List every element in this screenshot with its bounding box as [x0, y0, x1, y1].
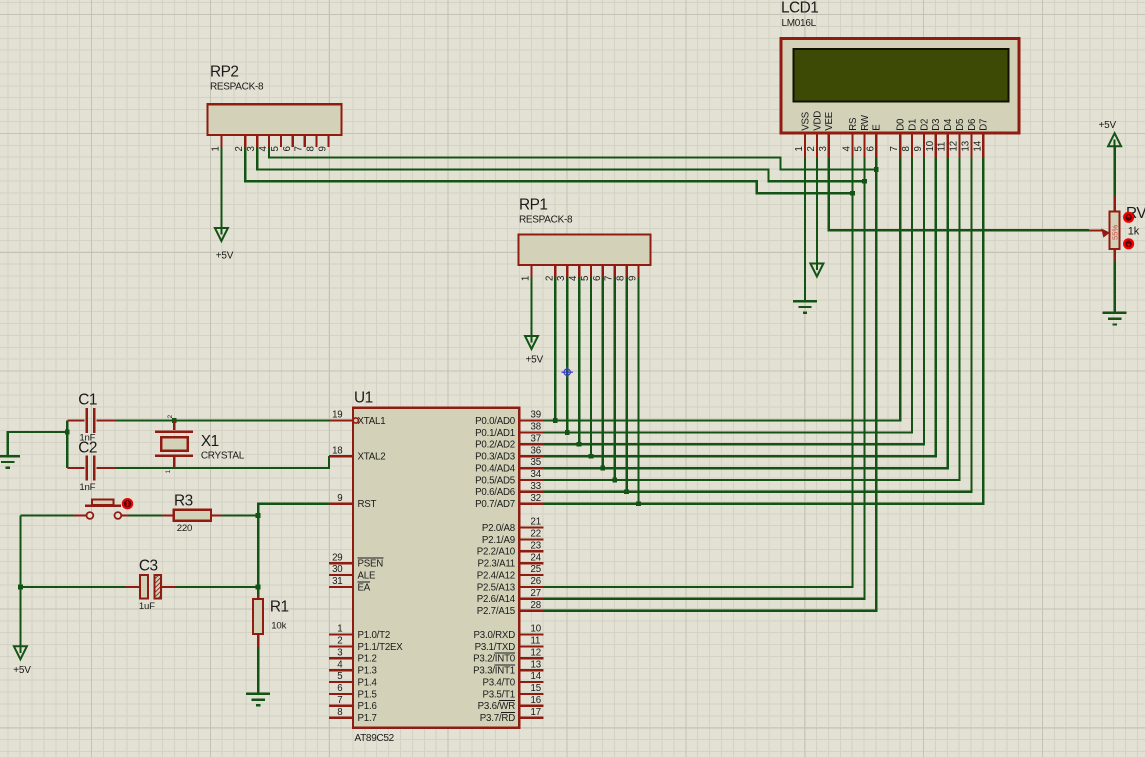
overline for PSEN [358, 557, 384, 559]
RP2 pin 1 stub [220, 135, 222, 147]
svg-text:32: 32 [531, 493, 541, 504]
svg-text:P3.0/RXD: P3.0/RXD [474, 630, 516, 641]
svg-text:6: 6 [865, 146, 876, 151]
svg-text:35: 35 [531, 457, 541, 468]
U1 pin 8 (P1.7) stub [329, 717, 353, 719]
RP1 pin 3 stub [566, 265, 568, 277]
svg-text:P1.0/T2: P1.0/T2 [358, 630, 391, 641]
LCD1 pin 3 (VEE) stub [828, 133, 830, 158]
wire RP2 pin2 to LCD RS [245, 147, 852, 193]
U1 pin 6 (P1.5) stub [329, 693, 353, 695]
svg-text:1nF: 1nF [79, 482, 95, 493]
svg-text:LCD1: LCD1 [781, 0, 818, 17]
svg-text:RESPACK-8: RESPACK-8 [210, 82, 264, 93]
svg-text:19: 19 [332, 410, 342, 421]
RP2 pin 3 stub [256, 135, 258, 147]
svg-text:RESPACK-8: RESPACK-8 [519, 215, 573, 226]
U1 pin 5 (P1.4) stub [329, 681, 353, 683]
svg-text:P3.2/INT0: P3.2/INT0 [473, 654, 516, 665]
push button [73, 514, 87, 516]
svg-text:2: 2 [806, 146, 817, 151]
U1 XTAL1 clock pin circle [353, 418, 358, 423]
node junction RP1 pin8 on P0.6 [624, 489, 629, 494]
overline for P3.6/WR [499, 700, 515, 702]
wire U1 P0.0 to LCD D0 [543, 158, 900, 421]
wire R1 to ground [257, 647, 259, 694]
svg-text:5: 5 [853, 146, 864, 151]
push button actuator red dot [122, 498, 133, 509]
LCD1 pin 6 (E) stub [875, 133, 877, 158]
svg-text:7: 7 [889, 146, 900, 151]
svg-text:1uF: 1uF [139, 601, 155, 612]
svg-text:P1.6: P1.6 [358, 701, 377, 712]
svg-text:X1: X1 [201, 433, 219, 450]
U1 pin 13 (P3.3/INT1) stub [519, 669, 543, 671]
svg-text:38: 38 [531, 422, 541, 433]
RP2 pin 9 stub [327, 135, 329, 147]
svg-text:28: 28 [531, 600, 541, 611]
RP1 pin 5 stub [590, 265, 592, 277]
LCD1 pin 8 (D1) stub [911, 133, 913, 158]
RP1 pin 2 stub [554, 265, 556, 277]
wire C1 to U1 XTAL1 [115, 419, 329, 421]
svg-text:33: 33 [531, 481, 541, 492]
svg-text:D2: D2 [919, 119, 930, 131]
svg-text:E: E [872, 124, 883, 131]
U1 pin 16 (P3.6/WR) stub [519, 705, 543, 707]
svg-text:P2.4/A12: P2.4/A12 [477, 570, 515, 581]
RP1 body [519, 235, 651, 265]
wire U1 P0.5 to LCD D5 [543, 158, 959, 480]
svg-text:+5V: +5V [216, 251, 234, 262]
svg-text:7: 7 [337, 695, 342, 706]
wire R3 to junction [221, 514, 258, 516]
U1 pin 19 (XTAL1) stub [329, 419, 353, 421]
wire U1 P0.7 to LCD D7 [543, 158, 983, 504]
svg-text:P3.7/RD: P3.7/RD [480, 713, 515, 724]
wire LCD VEE to RV1 wiper [829, 158, 1089, 230]
svg-text:XTAL1: XTAL1 [358, 416, 386, 427]
U1 pin 12 (P3.2/INT0) stub [519, 657, 543, 659]
svg-text:5: 5 [270, 146, 281, 151]
U1 pin 9 (RST) stub [329, 503, 353, 505]
U1 pin 26 (P2.5/A13) stub [519, 586, 543, 588]
LCD1 pin 13 (D6) stub [970, 133, 972, 158]
svg-text:VEE: VEE [824, 111, 835, 131]
svg-text:34: 34 [531, 469, 542, 480]
wire left rail to button [20, 514, 72, 516]
wire U1 P2.6 to LCD RW [543, 158, 864, 599]
wire U1 P0.6 to LCD D6 [543, 158, 971, 492]
node junction crystal top [172, 418, 177, 423]
svg-text:P1.7: P1.7 [358, 713, 377, 724]
svg-text:27: 27 [531, 588, 541, 599]
svg-text:D5: D5 [955, 119, 966, 131]
svg-text:P3.6/WR: P3.6/WR [478, 701, 516, 712]
svg-text:VDD: VDD [812, 111, 823, 131]
RV1 wiper arrow [1089, 229, 1103, 231]
svg-text:15: 15 [531, 683, 541, 694]
svg-text:+5V: +5V [526, 355, 544, 366]
svg-text:6: 6 [337, 683, 342, 694]
node junction RP1 pin3 on P0.1 [565, 430, 570, 435]
wire R3 junction to U1 RST [258, 504, 329, 516]
node junction at LCD RW column [862, 179, 867, 184]
wire C2 to U1 XTAL2 [115, 456, 329, 468]
svg-text:P3.3/INT1: P3.3/INT1 [473, 666, 515, 677]
RV1 increment button [1123, 212, 1134, 223]
wire left rail to C3 [20, 586, 125, 588]
svg-text:55%: 55% [1110, 225, 1119, 240]
wire U1 P0.3 to LCD D3 [543, 158, 935, 456]
svg-text:9: 9 [337, 493, 342, 504]
U1 pin 23 (P2.2/A10) stub [519, 550, 543, 552]
wire RP1 pin6 to P0.4 row [602, 277, 604, 468]
svg-text:10: 10 [925, 140, 936, 151]
svg-text:14: 14 [531, 671, 542, 682]
wire U1 P2.5 to LCD RS [543, 158, 852, 587]
node junction R3 row [256, 513, 261, 518]
svg-text:12: 12 [531, 648, 541, 659]
svg-text:1: 1 [794, 146, 805, 151]
wire RP1 pin4 to P0.2 row [578, 277, 580, 445]
RP1 pin 7 stub [614, 265, 616, 277]
wire U1 P2.7 to LCD E [543, 158, 876, 611]
svg-text:1: 1 [210, 146, 221, 151]
RP2 pin 5 stub [280, 135, 282, 147]
svg-text:8: 8 [306, 146, 317, 151]
U1 pin 29 (PSEN) stub [329, 562, 353, 564]
svg-text:P3.1/TXD: P3.1/TXD [475, 642, 516, 653]
svg-text:17: 17 [531, 707, 541, 718]
svg-text:5: 5 [580, 276, 591, 281]
wire caps to left ground [66, 421, 68, 469]
svg-text:25: 25 [531, 564, 541, 575]
RP2 body [208, 104, 342, 135]
svg-text:P3.4/T0: P3.4/T0 [482, 677, 515, 688]
svg-text:2: 2 [234, 146, 245, 151]
RP2 pin 2 stub [244, 135, 246, 147]
U1 pin 35 (P0.4/AD4) stub [519, 467, 543, 469]
power +5V bottom left [19, 646, 21, 653]
wire RP1 pin7 to P0.5 row [614, 277, 616, 480]
svg-text:3: 3 [337, 648, 342, 659]
svg-text:8: 8 [901, 146, 912, 151]
U1 pin 32 (P0.7/AD7) stub [519, 503, 543, 505]
node junction RP1 pin2 on P0.0 [553, 418, 558, 423]
svg-text:26: 26 [531, 576, 541, 587]
U1 pin 31 (EA) stub [329, 586, 353, 588]
RV1 top lead [1113, 195, 1115, 212]
svg-text:22: 22 [531, 529, 541, 540]
U1 pin 39 (P0.0/AD0) stub [519, 419, 543, 421]
svg-text:2: 2 [544, 276, 555, 281]
svg-text:P0.3/AD3: P0.3/AD3 [475, 452, 515, 463]
LCD1 pin 2 (VDD) stub [816, 133, 818, 158]
wire RP1 pin8 to P0.6 row [625, 277, 627, 492]
node junction caps left [65, 430, 70, 435]
ground below RV1 [1103, 312, 1127, 314]
wire RP2 pin4 to LCD E [269, 147, 876, 169]
svg-text:36: 36 [531, 445, 541, 456]
U1 pin 24 (P2.3/A11) stub [519, 562, 543, 564]
svg-text:3: 3 [818, 146, 829, 151]
wire RP1 pin5 to P0.3 row [590, 277, 592, 456]
wire LCD VSS to ground [804, 158, 806, 301]
svg-text:P2.1/A9: P2.1/A9 [482, 535, 515, 546]
svg-text:P0.0/AD0: P0.0/AD0 [475, 416, 516, 427]
svg-text:8: 8 [337, 707, 342, 718]
RP1 pin 4 stub [578, 265, 580, 277]
svg-text:7: 7 [604, 276, 615, 281]
svg-text:18: 18 [332, 445, 342, 456]
svg-text:+5V: +5V [13, 665, 31, 676]
U1 pin 10 (P3.0/RXD) stub [519, 633, 543, 635]
LCD1 pin 1 (VSS) stub [804, 133, 806, 158]
svg-text:13: 13 [531, 659, 541, 670]
svg-text:220: 220 [177, 523, 192, 534]
svg-text:3: 3 [246, 146, 257, 151]
U1 pin 22 (P2.1/A9) stub [519, 538, 543, 540]
svg-text:C2: C2 [78, 439, 97, 456]
node junction RP1 pin9 on P0.7 [636, 501, 641, 506]
potentiometer RV1 body [1110, 211, 1120, 248]
svg-text:P2.3/A11: P2.3/A11 [477, 559, 515, 570]
U1 pin 1 (P1.0/T2) stub [329, 633, 353, 635]
LCD1 pin 12 (D5) stub [958, 133, 960, 158]
overline for P3.7/RD [501, 712, 515, 714]
svg-text:XTAL2: XTAL2 [358, 452, 386, 463]
svg-text:P0.6/AD6: P0.6/AD6 [475, 487, 515, 498]
U1 pin 36 (P0.3/AD3) stub [519, 455, 543, 457]
wire junction to ground [8, 432, 68, 456]
svg-text:10: 10 [531, 624, 542, 635]
svg-text:6: 6 [282, 146, 293, 151]
wire RP2 pin3 to LCD RW [257, 147, 864, 181]
svg-text:P0.1/AD1: P0.1/AD1 [475, 428, 515, 439]
svg-text:RST: RST [358, 499, 377, 510]
wire left +5V rail [19, 516, 21, 647]
wire RP2 pin1 to +5V [220, 147, 222, 228]
wire C3 to junction [176, 586, 259, 588]
U1 pin 37 (P0.2/AD2) stub [519, 443, 543, 445]
svg-text:29: 29 [332, 552, 342, 563]
svg-text:P1.1/T2EX: P1.1/T2EX [358, 642, 404, 653]
RP2 pin 7 stub [303, 135, 305, 147]
svg-text:8: 8 [616, 276, 627, 281]
svg-text:EA: EA [358, 582, 371, 593]
LCD1 pin 11 (D4) stub [946, 133, 948, 158]
LCD1 body [781, 39, 1019, 134]
node junction RP1 pin5 on P0.3 [589, 454, 594, 459]
power arrow below LCD VDD [816, 264, 818, 271]
svg-text:24: 24 [531, 552, 542, 563]
wire U1 P0.2 to LCD D2 [543, 158, 924, 444]
svg-text:5: 5 [337, 671, 342, 682]
LCD1 pin 4 (RS) stub [851, 133, 853, 158]
RP2 pin 6 stub [292, 135, 294, 147]
svg-text:2: 2 [337, 636, 342, 647]
svg-text:P0.5/AD5: P0.5/AD5 [475, 475, 515, 486]
svg-text:9: 9 [913, 146, 924, 151]
svg-text:4: 4 [258, 146, 269, 152]
svg-text:1: 1 [337, 624, 342, 635]
U1 pin 25 (P2.4/A12) stub [519, 574, 543, 576]
power +5V below RP2 [220, 228, 222, 235]
svg-text:P0.7/AD7: P0.7/AD7 [475, 499, 515, 510]
svg-text:LM016L: LM016L [782, 18, 817, 29]
microcontroller U1 body (AT89C52) [353, 408, 519, 728]
U1 pin 7 (P1.6) stub [329, 705, 353, 707]
svg-text:P0.2/AD2: P0.2/AD2 [475, 440, 515, 451]
ground below R1 [246, 693, 270, 695]
wire RP1 pin2 to P0.0 row [554, 277, 556, 421]
U1 pin 4 (P1.3) stub [329, 669, 353, 671]
svg-text:13: 13 [960, 141, 971, 151]
U1 pin 34 (P0.5/AD5) stub [519, 479, 543, 481]
node junction C3 row [256, 585, 261, 590]
node junction RP1 pin4 on P0.2 [577, 442, 582, 447]
svg-text:RS: RS [848, 117, 859, 131]
svg-text:P1.3: P1.3 [358, 666, 377, 677]
wire RV1 to ground [1113, 262, 1115, 313]
wire vertical junction to R1 top [257, 516, 259, 596]
svg-text:P2.5/A13: P2.5/A13 [477, 582, 515, 593]
svg-text:3: 3 [556, 276, 567, 281]
wire RP1 pin9 to P0.7 row [637, 277, 639, 504]
svg-text:4: 4 [568, 275, 579, 281]
RP2 pin 4 stub [268, 135, 270, 147]
LCD1 pin 5 (RW) stub [863, 133, 865, 158]
svg-text:1: 1 [521, 276, 532, 281]
RV1 bottom lead [1113, 249, 1115, 262]
overline for P3.2/INT0 [495, 652, 515, 654]
LCD1 pin 10 (D3) stub [935, 133, 937, 158]
svg-text:1k: 1k [1128, 226, 1140, 238]
node junction RP1 pin7 on P0.5 [612, 478, 617, 483]
U1 pin 2 (P1.1/T2EX) stub [329, 645, 353, 647]
svg-text:P1.5: P1.5 [358, 689, 377, 700]
RP1 pin 8 stub [625, 265, 627, 277]
svg-text:7: 7 [294, 146, 305, 151]
wire button to R3 [129, 514, 163, 516]
svg-text:VSS: VSS [800, 111, 811, 131]
svg-text:21: 21 [531, 517, 541, 528]
LCD1 display screen [794, 49, 1009, 102]
U1 pin 30 (ALE) stub [329, 574, 353, 576]
svg-text:P1.4: P1.4 [358, 677, 378, 688]
node junction at LCD RS column [850, 191, 855, 196]
svg-text:P2.2/A10: P2.2/A10 [477, 547, 516, 558]
svg-text:CRYSTAL: CRYSTAL [201, 450, 245, 461]
ground left of C1/C2 [0, 455, 20, 457]
svg-text:C1: C1 [78, 392, 97, 409]
svg-text:30: 30 [332, 564, 343, 575]
svg-text:D4: D4 [943, 118, 954, 131]
U1 pin 33 (P0.6/AD6) stub [519, 491, 543, 493]
svg-text:R3: R3 [174, 493, 193, 510]
svg-text:P3.5/T1: P3.5/T1 [482, 689, 515, 700]
svg-text:37: 37 [531, 434, 541, 445]
U1 pin 15 (P3.5/T1) stub [519, 693, 543, 695]
svg-text:P2.0/A8: P2.0/A8 [482, 523, 515, 534]
svg-text:6: 6 [592, 276, 603, 281]
svg-text:+5V: +5V [1099, 120, 1117, 131]
svg-text:14: 14 [972, 140, 983, 151]
ground below LCD VSS [793, 300, 817, 302]
U1 pin 14 (P3.4/T0) stub [519, 681, 543, 683]
svg-text:RW: RW [860, 114, 871, 131]
RP1 pin 1 stub [530, 265, 532, 277]
svg-text:R1: R1 [270, 599, 289, 616]
LCD1 pin 14 (D7) stub [982, 133, 984, 158]
U1 pin 38 (P0.1/AD1) stub [519, 431, 543, 433]
svg-text:D6: D6 [967, 119, 978, 131]
svg-text:31: 31 [332, 576, 342, 587]
svg-text:11: 11 [531, 636, 541, 647]
svg-text:P2.7/A15: P2.7/A15 [477, 606, 515, 617]
wire U1 P0.4 to LCD D4 [543, 158, 947, 468]
svg-text:RP1: RP1 [519, 197, 547, 214]
U1 pin 17 (P3.7/RD) stub [519, 717, 543, 719]
U1 pin 21 (P2.0/A8) stub [519, 526, 543, 528]
svg-text:9: 9 [628, 276, 639, 281]
svg-text:P1.2: P1.2 [358, 654, 377, 665]
svg-text:39: 39 [531, 410, 541, 421]
U1 pin 18 (XTAL2) stub [329, 455, 353, 457]
svg-text:U1: U1 [354, 390, 373, 407]
svg-text:AT89C52: AT89C52 [355, 733, 395, 744]
node junction at LCD E column [874, 167, 879, 172]
wire U1 P0.1 to LCD D1 [543, 158, 912, 432]
wire RP1 pin1 to +5V [530, 277, 532, 336]
node junction left rail / C3 [18, 585, 23, 590]
origin marker (blue crosshair) [562, 367, 573, 378]
node junction RP1 pin6 on P0.4 [600, 466, 605, 471]
svg-text:ALE: ALE [358, 570, 376, 581]
overline for P3.3/INT1 [495, 664, 515, 666]
wire LCD VDD to +5V arrow [816, 158, 818, 264]
wire RP1 pin3 to P0.1 row [566, 277, 568, 433]
svg-text:23: 23 [531, 541, 541, 552]
U1 pin 3 (P1.2) stub [329, 657, 353, 659]
RP1 pin 6 stub [602, 265, 604, 277]
power +5V below RP1 [530, 336, 532, 343]
LCD1 pin 9 (D2) stub [923, 133, 925, 158]
svg-text:RP2: RP2 [210, 64, 238, 81]
LCD1 pin 7 (D0) stub [899, 133, 901, 158]
U1 pin 28 (P2.7/A15) stub [519, 610, 543, 612]
RP2 pin 8 stub [315, 135, 317, 147]
svg-text:D3: D3 [931, 119, 942, 131]
U1 pin 27 (P2.6/A14) stub [519, 598, 543, 600]
svg-text:P2.6/A14: P2.6/A14 [477, 594, 516, 605]
svg-text:4: 4 [842, 146, 853, 152]
svg-text:D0: D0 [896, 118, 907, 131]
svg-text:D7: D7 [979, 119, 990, 131]
overline for EA [358, 581, 371, 583]
RV1 decrement button [1123, 238, 1134, 249]
svg-text:16: 16 [531, 695, 541, 706]
wire +5V to RV1 [1113, 146, 1115, 195]
RP1 pin 9 stub [637, 265, 639, 277]
svg-text:D1: D1 [907, 119, 918, 131]
svg-text:10k: 10k [271, 621, 286, 632]
svg-text:P0.4/AD4: P0.4/AD4 [475, 463, 516, 474]
svg-text:4: 4 [337, 659, 343, 670]
svg-text:9: 9 [317, 146, 328, 151]
U1 pin 11 (P3.1/TXD) stub [519, 645, 543, 647]
